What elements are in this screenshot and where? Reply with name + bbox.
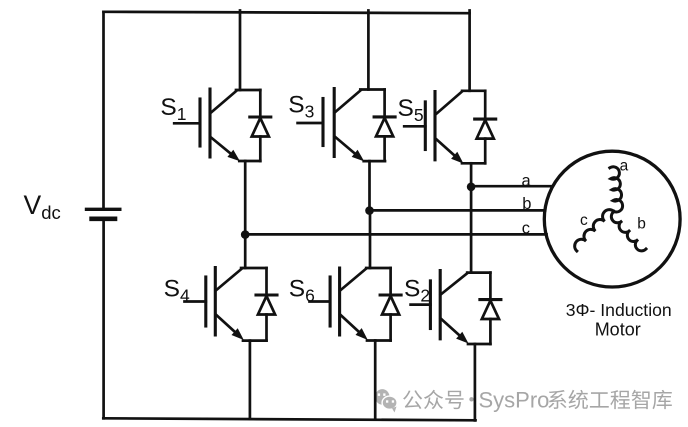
diode D5 (antiparallel with S5) <box>475 91 496 164</box>
node a (phase a junction) <box>467 183 476 192</box>
svg-text:c: c <box>580 212 588 229</box>
wire emitter lead S3 <box>368 161 371 212</box>
diode D2 (antiparallel with S2) <box>480 273 501 344</box>
svg-text:S2: S2 <box>404 275 430 305</box>
label S5 <box>398 95 424 125</box>
label Vdc value <box>24 190 61 223</box>
label winding b <box>637 216 646 233</box>
wire emitter lead S5 <box>470 163 473 183</box>
label S1 <box>160 94 186 124</box>
diode D6 (antiparallel with S6) <box>380 268 401 341</box>
diode D4 (antiparallel with S4) <box>256 268 277 341</box>
transistor S3 (IGBT) <box>298 89 385 162</box>
svg-text:b: b <box>637 216 646 233</box>
wire battery negative lead <box>102 221 105 418</box>
label S2 <box>404 275 430 305</box>
svg-text:b: b <box>522 195 531 213</box>
node c (phase c junction) <box>241 230 250 239</box>
wire collector lead S3 <box>367 11 370 90</box>
wire phase c to motor <box>245 233 546 236</box>
watermark WeChat logo and caption <box>375 389 397 412</box>
node b (phase b junction) <box>365 206 374 215</box>
svg-text:c: c <box>522 220 530 238</box>
label S4 <box>164 275 190 305</box>
wire collector lead S6 <box>369 209 372 268</box>
motor M1 (3-phase induction motor) body <box>544 151 680 287</box>
wire emitter lead S1 <box>244 161 247 236</box>
label phase b <box>522 195 531 213</box>
svg-text:S1: S1 <box>160 94 186 124</box>
diode D1 (antiparallel with S1) <box>250 90 271 161</box>
wire emitter lead S6 <box>374 341 377 420</box>
svg-text:Vdc: Vdc <box>24 190 61 223</box>
diode D3 (antiparallel with S3) <box>374 90 395 162</box>
label motor caption <box>566 300 672 340</box>
wire phase a to motor <box>471 185 552 188</box>
transistor S6 (IGBT) <box>310 268 391 341</box>
svg-text:S4: S4 <box>164 275 190 305</box>
svg-text:S3: S3 <box>288 92 314 122</box>
label S3 <box>288 92 314 122</box>
transistor S5 (IGBT) <box>404 91 485 164</box>
transistor S2 (IGBT) <box>411 271 491 344</box>
wire emitter lead S4 <box>249 341 252 419</box>
wire bottom DC bus (-) <box>103 418 475 420</box>
svg-text:SysPro: SysPro <box>479 388 550 413</box>
label winding a <box>620 158 629 175</box>
inductor winding phase c (motor stator coil c) <box>575 210 614 251</box>
label phase c <box>522 220 530 238</box>
svg-text:S6: S6 <box>289 275 315 305</box>
wire top DC bus (+) <box>104 12 470 13</box>
wire collector lead S1 <box>239 11 242 91</box>
svg-text:3Φ- Induction: 3Φ- Induction <box>566 300 672 320</box>
wire collector lead S4 <box>244 233 247 268</box>
inductor winding phase a (motor stator coil a) <box>610 167 623 212</box>
svg-text:Motor: Motor <box>595 320 641 340</box>
transistor S1 (IGBT) <box>174 89 260 161</box>
label winding c <box>580 212 588 229</box>
wire collector lead S5 <box>468 11 471 91</box>
wire phase b to motor <box>370 209 546 212</box>
wire battery positive lead <box>102 12 105 210</box>
wire collector lead S2 <box>470 184 473 273</box>
svg-text:a: a <box>522 172 532 190</box>
wire emitter lead S2 <box>474 344 477 420</box>
svg-text:S5: S5 <box>398 95 424 125</box>
label S6 <box>289 275 315 305</box>
transistor S4 (IGBT) <box>185 268 267 341</box>
battery Vdc <box>87 209 120 219</box>
label phase a <box>522 172 532 190</box>
svg-text:a: a <box>620 158 629 175</box>
inductor winding phase b (motor stator coil b) <box>611 212 646 251</box>
